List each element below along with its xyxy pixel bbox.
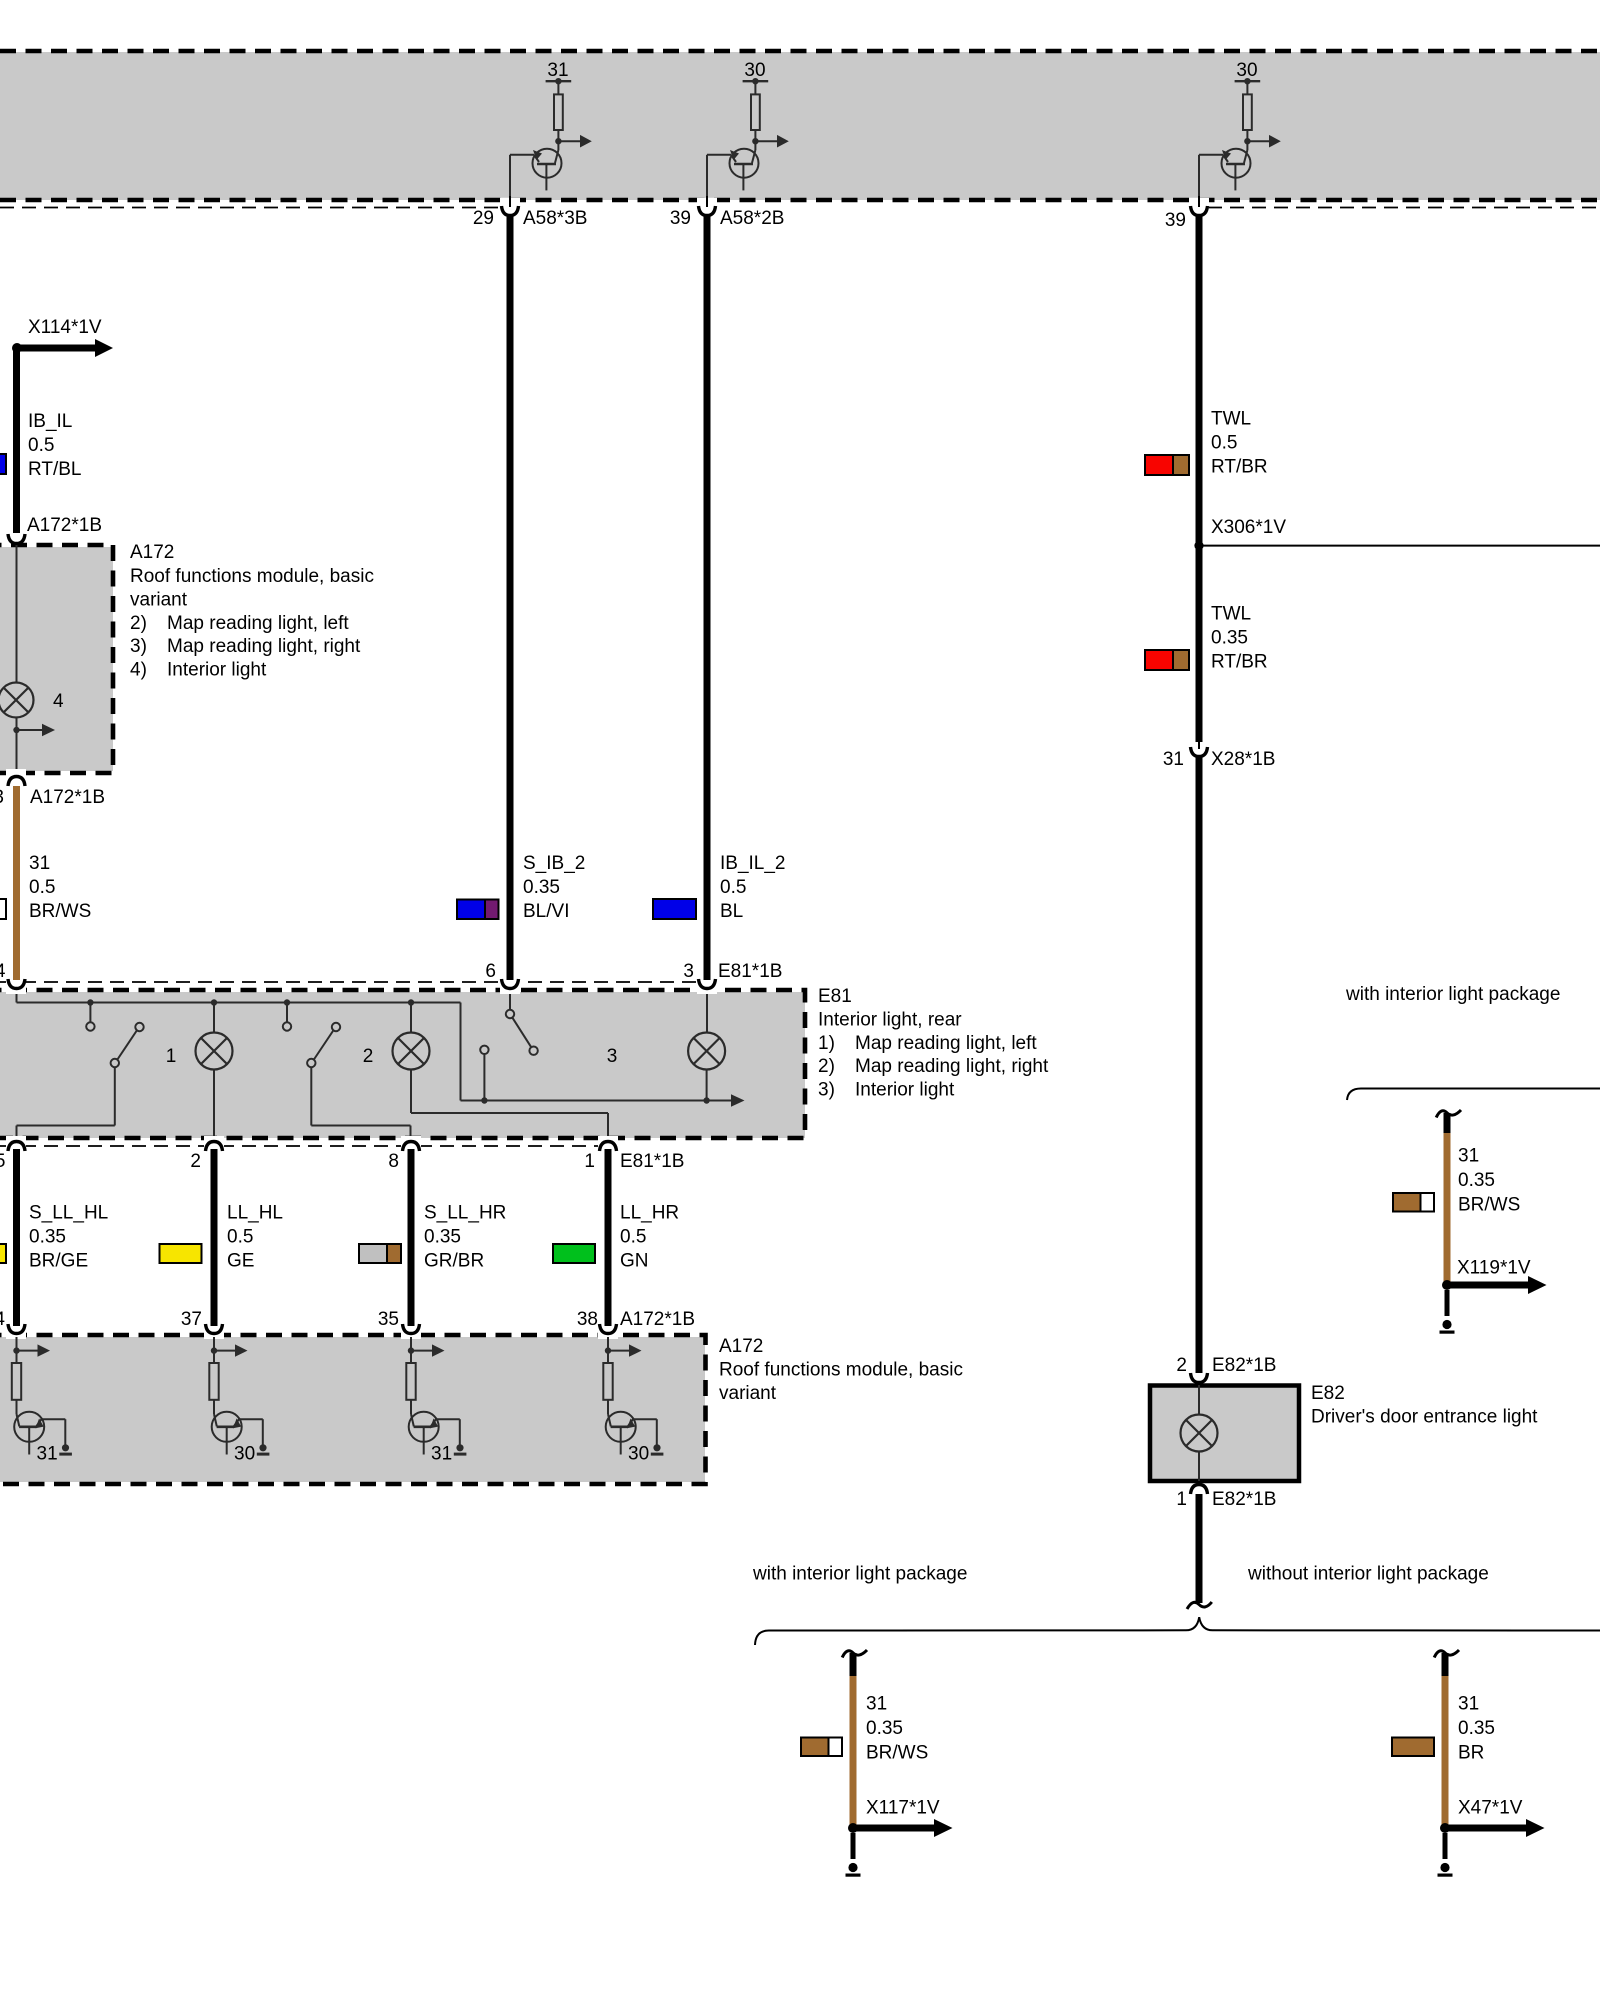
variant label: with interior light package (bottom left) <box>752 1564 967 1585</box>
svg-text:S_IB_2: S_IB_2 <box>523 853 585 874</box>
svg-text:3: 3 <box>0 787 4 808</box>
svg-text:Roof functions module, basic: Roof functions module, basic <box>719 1359 963 1380</box>
svg-text:31: 31 <box>866 1693 887 1714</box>
junction node with arrow (input 35 cell) <box>408 1337 445 1363</box>
node X119*1V with connector arrow <box>1442 1257 1547 1294</box>
svg-text:0.5: 0.5 <box>227 1226 253 1247</box>
lamp 3 interior light with output arrow <box>688 990 744 1107</box>
variant label: with interior light package (upper right) <box>1345 984 1560 1005</box>
wire continuation curl (end of E82 wire) <box>1187 1602 1212 1609</box>
pin 2 connector (E81 bottom) <box>190 1136 224 1172</box>
svg-text:variant: variant <box>130 589 188 610</box>
wire X28 to E82 pin 2 <box>1196 755 1203 1373</box>
svg-text:with interior light package: with interior light package <box>1345 984 1560 1005</box>
svg-text:3): 3) <box>818 1080 835 1101</box>
svg-text:A172: A172 <box>130 542 174 563</box>
junction node with arrow (input 38 cell) <box>605 1337 642 1363</box>
colour code box BR (X47) <box>1392 1738 1434 1757</box>
svg-text:Map reading light, right: Map reading light, right <box>855 1056 1049 1077</box>
svg-text:39: 39 <box>1165 210 1186 231</box>
svg-text:2: 2 <box>363 1046 374 1067</box>
module A172 roof functions module (upper housing) <box>0 545 113 773</box>
colour code box RT/BL (clipped at page edge) <box>0 454 6 474</box>
svg-text:GN: GN <box>620 1250 649 1271</box>
svg-text:1: 1 <box>584 1151 595 1172</box>
svg-text:A58*2B: A58*2B <box>720 208 784 229</box>
svg-text:A58*3B: A58*3B <box>523 208 587 229</box>
wire TWL 0.35 RT/BR <box>1199 546 1268 742</box>
A58 housing thin border, left segment <box>0 207 502 209</box>
svg-text:BR/WS: BR/WS <box>29 901 91 922</box>
svg-text:3: 3 <box>683 961 694 982</box>
svg-text:8: 8 <box>388 1151 399 1172</box>
svg-text:E82*1B: E82*1B <box>1212 1355 1276 1376</box>
resistor (input 37 cell) <box>209 1363 218 1414</box>
ground point (input 35 cell) <box>454 1444 467 1455</box>
svg-text:RT/BL: RT/BL <box>28 459 82 480</box>
svg-text:TWL: TWL <box>1211 603 1251 624</box>
net 31 supply bar (driver cell 1) <box>546 60 572 84</box>
svg-text:BR/WS: BR/WS <box>1458 1195 1520 1216</box>
svg-text:BR: BR <box>1458 1743 1484 1764</box>
svg-text:S_LL_HR: S_LL_HR <box>424 1202 506 1223</box>
svg-text:Roof functions module, basic: Roof functions module, basic <box>130 566 374 587</box>
svg-text:4: 4 <box>53 691 64 712</box>
wire continuation curl (top of X117 branch) <box>842 1650 867 1677</box>
svg-text:31: 31 <box>1163 749 1184 770</box>
svg-text:X306*1V: X306*1V <box>1211 517 1286 538</box>
svg-text:30: 30 <box>1236 60 1257 81</box>
wire IB_IL_2 0.5 BL (trunk from pin 39) <box>707 214 786 981</box>
svg-text:30: 30 <box>744 60 765 81</box>
svg-text:Map reading light, left: Map reading light, left <box>855 1033 1037 1054</box>
ground termination (below X119 node) <box>1440 1290 1455 1334</box>
module E81 interior light rear (housing) <box>0 990 805 1138</box>
variant brace (bottom, splits with/without packages) <box>755 1617 1600 1645</box>
svg-text:E81: E81 <box>818 986 852 1007</box>
junction node with arrow (input 34 cell) <box>13 1337 50 1363</box>
switch 2 (map reading light right) <box>283 1003 411 1140</box>
svg-text:E82: E82 <box>1311 1383 1345 1404</box>
svg-text:31: 31 <box>1458 1693 1479 1714</box>
module A172 roof functions module (lower housing) <box>0 1335 706 1484</box>
svg-text:38: 38 <box>577 1309 598 1330</box>
transistor Q3 (output to pin 39 right) <box>1199 141 1251 206</box>
svg-text:Interior light: Interior light <box>855 1080 955 1101</box>
colour code box RT/BR (upper) <box>1145 455 1189 475</box>
svg-text:X114*1V: X114*1V <box>28 317 102 338</box>
wire 31 0.35 BR/WS (X119 branch, brown) <box>1447 1133 1520 1283</box>
pin 1 connector E81*1B (E81 bottom) <box>584 1136 684 1172</box>
svg-text:6: 6 <box>485 961 496 982</box>
variant label: without interior light package <box>1247 1564 1489 1585</box>
svg-text:1: 1 <box>1176 1489 1187 1510</box>
svg-text:LL_HR: LL_HR <box>620 1202 679 1223</box>
transistor (input 37 cell) <box>212 1412 263 1465</box>
svg-text:RT/BR: RT/BR <box>1211 456 1268 477</box>
wire S_LL_HR 0.35 GR/BR <box>411 1149 506 1330</box>
resistor (input 38 cell) <box>603 1363 612 1414</box>
junction node with output arrow, driver cell 1 <box>555 135 592 148</box>
lamp E82 entrance light <box>1181 1385 1218 1481</box>
svg-text:5: 5 <box>0 1151 6 1172</box>
colour code box BR/GE (clipped at page edge) <box>0 1244 6 1263</box>
svg-text:30: 30 <box>628 1444 649 1465</box>
svg-text:with interior light package: with interior light package <box>752 1564 967 1585</box>
svg-text:E81*1B: E81*1B <box>620 1151 684 1172</box>
transistor (input 35 cell) <box>409 1412 460 1465</box>
pin 5 connector (E81 bottom left, number clipped) <box>0 1136 26 1172</box>
E81 heading text <box>818 986 1049 1101</box>
svg-text:4: 4 <box>0 961 6 982</box>
variant brace (upper right) <box>1347 1089 1600 1101</box>
svg-text:31: 31 <box>547 60 568 81</box>
colour code box GE <box>160 1244 202 1263</box>
svg-text:31: 31 <box>29 853 50 874</box>
svg-text:X117*1V: X117*1V <box>866 1797 940 1818</box>
E81 internal bus to interior light <box>461 1003 707 1104</box>
svg-text:0.35: 0.35 <box>1458 1170 1495 1191</box>
svg-text:0.35: 0.35 <box>424 1226 461 1247</box>
svg-text:A172: A172 <box>719 1336 763 1357</box>
svg-text:1: 1 <box>166 1046 177 1067</box>
svg-text:39: 39 <box>670 208 691 229</box>
svg-text:Interior light, rear: Interior light, rear <box>818 1009 962 1030</box>
node X47*1V with connector arrow <box>1440 1797 1545 1837</box>
pin connector A172*1B (top of A172) <box>6 515 102 551</box>
svg-text:1): 1) <box>818 1033 835 1054</box>
pin connector A172*1B (bottom of A172), pin number clipped <box>0 769 105 808</box>
svg-text:35: 35 <box>378 1309 399 1330</box>
E81 housing thin border, top <box>0 981 707 983</box>
svg-text:BR/WS: BR/WS <box>866 1743 928 1764</box>
transistor (input 38 cell) <box>606 1412 657 1465</box>
transistor Q2 (output to pin 39) <box>707 141 759 206</box>
wire inside A172 from pin to lamp <box>16 545 18 683</box>
pin 8 connector (E81 bottom) <box>388 1136 421 1172</box>
switch 3 (interior light) <box>480 990 617 1101</box>
wire S_IB_2 0.35 BL/VI (trunk from pin 29) <box>510 214 585 981</box>
colour code box BR/WS (X117) <box>801 1738 842 1757</box>
pin 34 connector (A172 lower, number clipped) <box>0 1309 26 1339</box>
svg-text:IB_IL_2: IB_IL_2 <box>720 853 786 874</box>
wire 31 0.5 BR/WS (brown, A172 to E81) <box>17 786 92 981</box>
module A58 junction box electronics (top band housing) <box>0 51 1600 200</box>
svg-text:0.35: 0.35 <box>29 1226 66 1247</box>
wire LL_HL 0.5 GE <box>214 1149 283 1330</box>
svg-text:4): 4) <box>130 660 147 681</box>
svg-text:2): 2) <box>818 1056 835 1077</box>
transistor (input 34 cell) <box>14 1412 65 1465</box>
svg-text:RT/BR: RT/BR <box>1211 651 1268 672</box>
svg-text:X47*1V: X47*1V <box>1458 1797 1523 1818</box>
wire LL_HR 0.5 GN <box>608 1149 679 1330</box>
lamp 4 interior light (inside A172) <box>0 683 64 718</box>
junction node with arrow (below lamp 4) <box>13 718 55 774</box>
junction node with output arrow, driver cell 3 <box>1244 135 1281 148</box>
node X114*1V with connector arrow <box>12 317 113 357</box>
svg-text:0.35: 0.35 <box>1458 1718 1495 1739</box>
svg-text:2: 2 <box>190 1151 201 1172</box>
colour code box BR/WS (X119) <box>1393 1193 1434 1212</box>
svg-text:A172*1B: A172*1B <box>27 515 102 536</box>
resistor, driver cell 2 <box>751 81 760 141</box>
svg-text:without interior light package: without interior light package <box>1247 1564 1489 1585</box>
svg-text:E82*1B: E82*1B <box>1212 1489 1276 1510</box>
svg-text:Map reading light, left: Map reading light, left <box>167 613 349 634</box>
svg-text:A172*1B: A172*1B <box>620 1309 695 1330</box>
svg-text:A172*1B: A172*1B <box>30 787 105 808</box>
net 30 supply bar (driver cell 3) <box>1235 60 1261 84</box>
pin 4 connector (E81 top left, number clipped) <box>0 961 26 994</box>
wire continuation curl (top of X47 branch) <box>1434 1650 1459 1677</box>
net 31 supply bar (driver cell 2) <box>743 60 769 84</box>
pin 35 connector (A172 lower) <box>378 1309 421 1339</box>
svg-text:0.35: 0.35 <box>866 1718 903 1739</box>
resistor, driver cell 3 <box>1243 81 1252 141</box>
svg-text:X28*1B: X28*1B <box>1211 749 1275 770</box>
node X306*1V with branch line <box>1194 517 1600 550</box>
svg-text:34: 34 <box>0 1309 5 1330</box>
svg-text:Interior light: Interior light <box>167 660 267 681</box>
E81 internal bus wire from pin 4 <box>17 990 461 1006</box>
colour code box GR/BR <box>359 1244 401 1263</box>
node X117*1V with connector arrow <box>848 1797 953 1837</box>
svg-text:3): 3) <box>130 636 147 657</box>
pin 1 connector E82*1B (E82 bottom) <box>1176 1485 1276 1511</box>
svg-text:S_LL_HL: S_LL_HL <box>29 1202 108 1223</box>
svg-text:37: 37 <box>181 1309 202 1330</box>
ground termination (below X117 node) <box>846 1833 861 1877</box>
E81 housing thin border, bottom <box>0 1145 608 1147</box>
pin 37 connector (A172 lower) <box>181 1309 224 1339</box>
svg-text:31: 31 <box>37 1444 58 1465</box>
svg-text:0.5: 0.5 <box>620 1226 646 1247</box>
colour code box GN <box>553 1244 595 1263</box>
junction node with arrow (input 37 cell) <box>211 1337 248 1363</box>
resistor (input 34 cell) <box>12 1363 21 1414</box>
lamp 1 map reading light left <box>196 1003 233 1140</box>
A172 heading text <box>130 542 374 681</box>
junction node with output arrow, driver cell 2 <box>752 135 789 148</box>
ground point (input 34 cell) <box>59 1444 72 1455</box>
svg-text:0.35: 0.35 <box>523 877 560 898</box>
svg-text:0.5: 0.5 <box>28 435 54 456</box>
svg-text:GE: GE <box>227 1250 254 1271</box>
svg-text:0.5: 0.5 <box>720 877 746 898</box>
svg-text:X119*1V: X119*1V <box>1457 1257 1531 1278</box>
svg-text:29: 29 <box>473 208 494 229</box>
E82 heading text <box>1311 1383 1538 1427</box>
lamp 2 map reading light right <box>393 1003 609 1140</box>
inline connector pin 31 X28*1B <box>1163 740 1276 770</box>
svg-text:Map reading light, right: Map reading light, right <box>167 636 361 657</box>
ground termination (below X47 node) <box>1438 1833 1453 1877</box>
colour code box BR/WS (clipped at page edge) <box>0 899 6 919</box>
ground point (input 37 cell) <box>257 1444 270 1455</box>
resistor (input 35 cell) <box>406 1363 415 1414</box>
svg-text:E81*1B: E81*1B <box>718 961 782 982</box>
colour code box RT/BR (lower) <box>1145 650 1189 670</box>
svg-text:31: 31 <box>1458 1145 1479 1166</box>
svg-text:Driver's door entrance light: Driver's door entrance light <box>1311 1406 1538 1427</box>
transistor Q1 (output to pin 29) <box>510 141 562 206</box>
svg-text:TWL: TWL <box>1211 408 1251 429</box>
wire 31 0.35 BR (X47 branch, brown) <box>1445 1676 1495 1826</box>
pin 29 connector A58*3B <box>473 196 588 229</box>
pin 38 connector A172*1B (A172 lower) <box>577 1309 695 1339</box>
svg-text:3: 3 <box>607 1046 618 1067</box>
svg-text:31: 31 <box>431 1444 452 1465</box>
wire TWL 0.5 RT/BR (trunk from pin 39 right) <box>1199 214 1268 546</box>
wire continuation curl (top of X119 branch) <box>1436 1110 1461 1134</box>
pin 2 connector E82*1B (E82 top) <box>1176 1355 1276 1383</box>
switch 1 (map reading light left) <box>17 1003 177 1140</box>
wire S_LL_HL 0.35 BR/GE <box>17 1149 109 1330</box>
colour code box BL/VI <box>457 900 499 920</box>
svg-text:2): 2) <box>130 613 147 634</box>
wire IB_IL 0.5 RT/BL <box>17 348 82 533</box>
svg-text:variant: variant <box>719 1383 777 1404</box>
svg-text:BL: BL <box>720 901 743 922</box>
A58 housing thin border, right segment <box>1208 207 1600 209</box>
svg-text:0.35: 0.35 <box>1211 627 1248 648</box>
wire 31 0.35 BR/WS (X117 branch, brown) <box>853 1676 928 1826</box>
pin 39 connector A58*2B <box>670 196 785 229</box>
colour code box BL <box>653 899 696 919</box>
svg-text:BR/GE: BR/GE <box>29 1250 88 1271</box>
svg-text:0.5: 0.5 <box>29 877 55 898</box>
svg-text:LL_HL: LL_HL <box>227 1202 283 1223</box>
svg-text:GR/BR: GR/BR <box>424 1250 484 1271</box>
ground point (input 38 cell) <box>651 1444 664 1455</box>
svg-text:IB_IL: IB_IL <box>28 411 72 432</box>
module E82 driver's door entrance light (housing) <box>1150 1386 1299 1482</box>
wire from E82 pin 1 down <box>1196 1494 1203 1603</box>
A172 lower heading text <box>719 1336 963 1404</box>
svg-text:0.5: 0.5 <box>1211 432 1237 453</box>
svg-text:BL/VI: BL/VI <box>523 901 569 922</box>
svg-text:30: 30 <box>234 1444 255 1465</box>
svg-text:2: 2 <box>1176 1355 1187 1376</box>
pin 6 connector (E81 top) <box>485 961 520 994</box>
pin 3 connector E81*1B (E81 top) <box>683 961 782 994</box>
pin 39 connector (right trunk) <box>1165 196 1209 231</box>
resistor, driver cell 1 <box>554 81 563 141</box>
